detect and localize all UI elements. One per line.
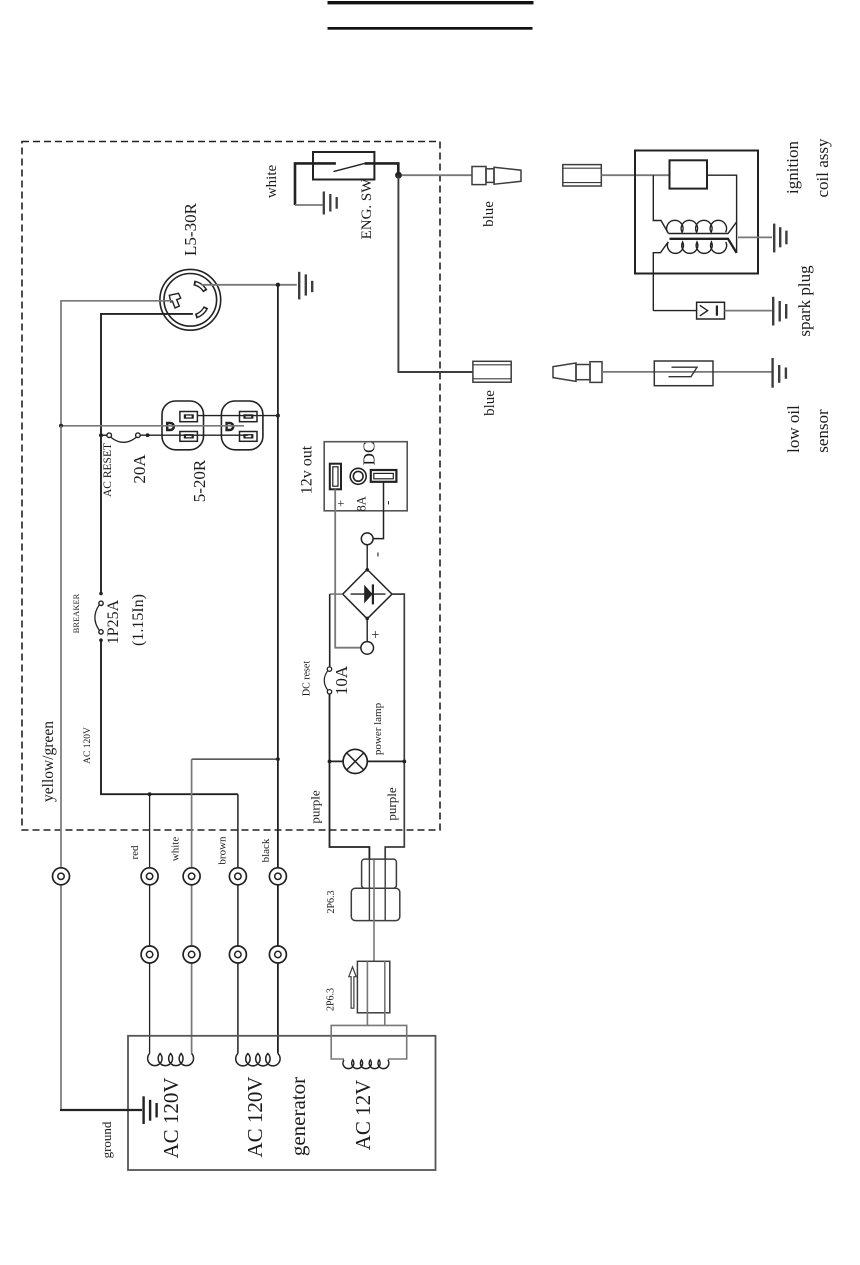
wire ENG.SW right to junction: [365, 163, 399, 172]
svg-text:10A: 10A: [332, 665, 351, 695]
connector blue female upper: [563, 165, 602, 186]
svg-text:20A: 20A: [130, 454, 149, 484]
svg-text:ENG. SW: ENG. SW: [359, 178, 375, 240]
connector ring red 2: [141, 946, 158, 963]
svg-text:L5-30R: L5-30R: [181, 202, 200, 256]
rectifier bridge diamond: [343, 569, 392, 618]
connector blue female lower: [473, 361, 511, 382]
svg-text:white: white: [264, 164, 280, 198]
breaker AC RESET arc: [111, 437, 137, 442]
connector ring white 2: [183, 946, 200, 963]
wire between 2P6.3 connectors: [373, 860, 375, 961]
connector 2P6.3 upper block A: [362, 859, 397, 888]
svg-text:AC RESET: AC RESET: [102, 443, 114, 497]
svg-text:2P6.3: 2P6.3: [326, 988, 337, 1011]
svg-text:sensor: sensor: [813, 409, 832, 453]
wire secondary left lead: [653, 242, 668, 311]
svg-text:AC 120V: AC 120V: [83, 727, 93, 764]
wire L5-30R neutral to breaker bus: [101, 314, 193, 435]
wire brown column: [237, 794, 239, 1053]
connector ring brown 1: [229, 868, 246, 885]
wire L5-30R ground lead: [201, 284, 296, 286]
ground symbol ignition coil: [774, 224, 786, 253]
duplex receptacle 5-20R body B: [221, 401, 263, 450]
socket 12v rectangular: [330, 464, 341, 490]
ground symbol generator: [144, 1096, 157, 1124]
receptacle A top slot: [180, 412, 198, 422]
wire ground stem: [295, 204, 323, 206]
svg-text:DC reset: DC reset: [302, 661, 313, 696]
svg-text:blue: blue: [482, 390, 498, 416]
node on ground lead: [276, 283, 280, 287]
wire bridge left to DC reset bus: [330, 593, 343, 595]
terminal plus: [361, 642, 374, 655]
svg-text:ignition: ignition: [783, 141, 802, 194]
svg-text:+: +: [368, 630, 384, 638]
svg-text:5-20R: 5-20R: [190, 459, 209, 502]
breaker 1P25A contact 2: [99, 630, 103, 634]
winding ignition secondary: [667, 242, 726, 253]
node above breaker: [99, 592, 103, 596]
svg-text:DC: DC: [360, 442, 379, 466]
breaker AC RESET contact 2: [136, 433, 141, 438]
winding AC 120V no.1: [148, 1054, 194, 1066]
receptacle B top slot: [240, 412, 258, 422]
svg-text:AC 120V: AC 120V: [243, 1076, 267, 1157]
connector ring black 2: [269, 946, 286, 963]
ignition module: [670, 160, 708, 188]
wire yellow-green column: [60, 426, 62, 1110]
wire white loop ENG.SW left to ground: [295, 163, 336, 205]
node right bus at receptacle: [276, 414, 280, 418]
wire breaker to brown column: [101, 640, 238, 794]
svg-text:black: black: [260, 838, 272, 862]
svg-text:purple: purple: [308, 790, 323, 823]
wire DC reset to lamp and connector left: [330, 694, 370, 860]
svg-text:-: -: [381, 501, 395, 505]
wire minus terminal to bridge: [366, 545, 368, 570]
connector 2P6.3 lower body: [357, 961, 389, 1013]
svg-text:purple: purple: [384, 787, 399, 820]
winding AC 12V: [343, 1060, 389, 1069]
node after AC RESET: [146, 433, 150, 437]
svg-text:yellow/green: yellow/green: [40, 721, 57, 802]
breaker AC RESET contact 1: [107, 433, 112, 438]
generator box: [128, 1036, 436, 1170]
wire DC slot to minus terminal: [373, 482, 383, 539]
wire DC reset bus upper: [329, 594, 331, 667]
svg-text:12v out: 12v out: [299, 445, 316, 494]
core line primary: [669, 222, 737, 234]
breaker DC reset contact 1: [327, 667, 331, 671]
diode inside bridge: [351, 584, 386, 604]
svg-text:2P6.3: 2P6.3: [326, 890, 337, 913]
receptacle B ground D: [225, 422, 234, 431]
switch ENG. SW body: [313, 152, 374, 180]
wire red column: [149, 794, 151, 1053]
svg-text:low oil: low oil: [784, 405, 803, 453]
connector ring yellow-green: [53, 868, 70, 885]
core line secondary: [670, 239, 737, 253]
wire AC 12V winding loop: [331, 1025, 407, 1059]
wire receptacle lower slot line: [140, 434, 248, 436]
wire female to ignition coil: [601, 174, 669, 176]
connector 2P6.3 upper block B: [351, 888, 400, 920]
title line bottom: [328, 27, 533, 30]
svg-text:AC 120V: AC 120V: [159, 1077, 183, 1158]
node white branch: [276, 757, 280, 761]
wire generator ground stem: [60, 1109, 142, 1111]
connector lower latch arrow: [349, 967, 356, 1008]
connector ring brown 2: [229, 946, 246, 963]
node red branch: [148, 792, 152, 796]
connector lower pins: [367, 961, 384, 1025]
node at breaker bus: [99, 433, 103, 437]
wire L5-30R hot to left bus: [61, 301, 173, 426]
breaker AC RESET lead: [101, 434, 107, 436]
wire receptacle hot line: [197, 415, 278, 417]
node left bus at D line: [59, 424, 63, 428]
svg-text:(1.15In): (1.15In): [130, 594, 147, 646]
svg-text:red: red: [129, 845, 141, 860]
receptacle L5-30R outer ring: [160, 269, 221, 330]
lamp power indicator: [343, 749, 367, 773]
receptacle B bottom slot: [240, 432, 258, 442]
svg-text:8A: 8A: [355, 496, 369, 511]
wire white branch from black bus: [192, 758, 278, 760]
panel 12v out DC box: [324, 442, 407, 511]
wire male to low oil sensor: [602, 371, 772, 373]
title line top: [328, 1, 534, 4]
node bridge top: [365, 568, 369, 572]
switch contact stub: [313, 162, 336, 164]
svg-text:blue: blue: [481, 201, 497, 227]
connector ring black 1: [269, 868, 286, 885]
node lamp right: [402, 760, 406, 764]
receptacle A bottom slot: [180, 432, 198, 442]
breaker 1P25A contact 1: [99, 601, 103, 605]
wire receptacle neutral D line: [61, 425, 244, 427]
svg-text:BREAKER: BREAKER: [71, 593, 81, 633]
wire bridge to plus terminal: [366, 619, 368, 642]
svg-text:-: -: [370, 552, 386, 557]
svg-text:AC 12V: AC 12V: [351, 1080, 375, 1151]
control panel dashed enclosure: [22, 142, 440, 831]
breaker DC reset contact 2: [327, 690, 331, 694]
wire ignition to ground: [738, 236, 772, 238]
wire right bus down: [277, 285, 279, 1054]
wire spark plug to ground: [725, 310, 772, 312]
wire 12v socket to plus terminal: [335, 489, 361, 647]
svg-text:ground: ground: [99, 1121, 114, 1158]
winding ignition primary: [667, 220, 727, 232]
wire lamp leads: [330, 760, 405, 762]
svg-text:white: white: [170, 837, 182, 862]
wire junction down and right to low-oil blue connector: [398, 175, 473, 372]
switch lever: [334, 163, 365, 171]
breaker DC reset arc: [324, 671, 327, 690]
breaker 1P25A arc: [95, 605, 99, 630]
receptacle A ground D: [166, 422, 175, 431]
ground symbol at L5-30R: [299, 272, 312, 300]
socket DC slot: [371, 470, 397, 482]
svg-text:power lamp: power lamp: [372, 702, 384, 755]
winding AC 120V no.2: [236, 1054, 280, 1066]
wire primary branch: [653, 175, 668, 233]
wire bridge right to lamp and connector right: [385, 594, 404, 859]
node lamp left: [328, 760, 332, 764]
socket DC round: [350, 468, 366, 484]
L5-30R slot bottom: [196, 307, 206, 316]
ground symbol low oil: [773, 358, 786, 388]
terminal minus: [361, 533, 373, 545]
duplex receptacle 5-20R body A: [162, 401, 204, 450]
receptacle L5-30R inner ring: [164, 274, 217, 327]
spark plug gap symbol: [697, 302, 725, 319]
connector ring white 1: [183, 868, 200, 885]
connector blue male lower: [553, 362, 602, 383]
connector upper pins: [369, 860, 385, 921]
wire junction to blue connector: [402, 174, 472, 176]
wire to spark plug: [653, 310, 696, 312]
svg-text:1P25A: 1P25A: [105, 599, 122, 644]
node below breaker: [99, 638, 103, 642]
svg-text:spark plug: spark plug: [795, 265, 814, 337]
node bridge bottom: [365, 617, 369, 621]
node junction at ENG.SW output: [395, 172, 402, 179]
L5-30R slot top: [194, 283, 205, 291]
L5-30R slot hook: [169, 293, 180, 308]
ignition coil assy box: [635, 151, 758, 274]
svg-text:coil assy: coil assy: [813, 138, 832, 198]
connector ring red 1: [141, 868, 158, 885]
ground symbol spark plug: [773, 297, 786, 326]
wire breaker bus down: [100, 435, 102, 592]
ground symbol at ENG.SW: [324, 192, 337, 215]
wire module to secondary side: [707, 175, 737, 253]
wire white column: [191, 759, 193, 1053]
low oil sensor switch: [654, 361, 713, 386]
svg-text:generator: generator: [286, 1077, 310, 1156]
connector blue male upper: [472, 167, 521, 185]
svg-text:brown: brown: [217, 836, 229, 865]
